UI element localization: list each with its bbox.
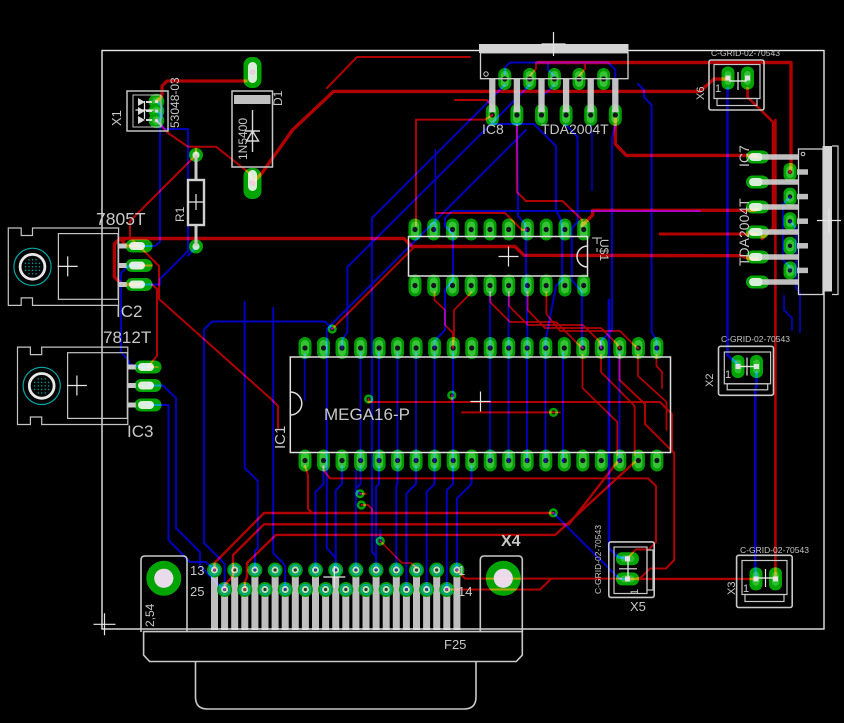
- wire: [579, 63, 585, 77]
- resistor R1 bottom pad: [189, 240, 203, 254]
- wire: [566, 125, 582, 348]
- IC1 origin cross: [471, 392, 491, 412]
- wire: [620, 355, 675, 579]
- IC3 pad 2: [135, 379, 162, 392]
- svg-text:TDA2004T: TDA2004T: [736, 198, 752, 266]
- via B: [357, 500, 366, 509]
- wire: [554, 411, 561, 413]
- F25 body outline: [144, 632, 523, 662]
- wire: [455, 100, 492, 107]
- wire: [434, 150, 436, 232]
- IC8 body outline: [481, 53, 629, 79]
- IC8 lower pad row: [486, 104, 622, 126]
- via A: [355, 489, 364, 498]
- wire: [406, 466, 416, 590]
- wire: [195, 147, 197, 155]
- wire: [528, 292, 620, 348]
- IC2 pad 2: [126, 259, 153, 272]
- svg-text:C-GRID-02-70543: C-GRID-02-70543: [711, 48, 780, 58]
- wire: [336, 466, 342, 570]
- wire: [638, 84, 657, 352]
- via F: [447, 391, 456, 400]
- wire: [492, 124, 562, 348]
- connector X6 pad 1: [722, 67, 735, 90]
- X1 origin cross: [136, 101, 154, 119]
- wire: [376, 466, 379, 570]
- wire: [447, 579, 551, 590]
- connector X3 pad 1: [750, 567, 763, 590]
- svg-text:1: 1: [458, 563, 465, 578]
- svg-text:25: 25: [190, 584, 204, 599]
- wire: [380, 541, 416, 568]
- wire: [215, 513, 554, 570]
- svg-text:MEGA16-P: MEGA16-P: [324, 405, 410, 424]
- wire: [562, 352, 564, 462]
- wire: [245, 462, 635, 590]
- connector X6 outline: [709, 60, 764, 110]
- connector X3 pad 2: [769, 567, 782, 590]
- IC3 pad 3: [135, 399, 162, 412]
- svg-text:X1: X1: [109, 110, 124, 126]
- wire: [447, 466, 453, 590]
- X3 origin cross: [757, 569, 775, 587]
- svg-text:D1: D1: [271, 90, 285, 106]
- wire: [121, 266, 148, 368]
- wire: [273, 308, 285, 590]
- wire: [601, 355, 635, 455]
- wire: [728, 88, 739, 367]
- wire: [416, 115, 492, 226]
- svg-text:14: 14: [458, 584, 472, 599]
- wire: [361, 505, 372, 513]
- wire: [157, 121, 253, 181]
- wire: [508, 292, 510, 348]
- svg-text:F25: F25: [444, 637, 466, 652]
- wire: [436, 213, 526, 230]
- wire: [657, 355, 663, 388]
- connector X2 pad 1: [732, 355, 745, 378]
- IC2 origin cross: [58, 256, 78, 276]
- IC7 tab: [823, 146, 839, 295]
- wire: [360, 352, 362, 462]
- svg-text:C-GRID-02-70543: C-GRID-02-70543: [721, 334, 790, 344]
- wire: [327, 130, 526, 570]
- svg-text:X2: X2: [704, 374, 716, 387]
- wire: [378, 352, 380, 462]
- svg-text:IC2: IC2: [116, 302, 142, 321]
- svg-text:1: 1: [629, 589, 641, 595]
- wire: [582, 209, 757, 226]
- svg-text:U$1: U$1: [597, 239, 611, 261]
- wire: [452, 352, 454, 462]
- wire: [316, 466, 324, 570]
- IC8 pin bars: [492, 79, 615, 112]
- wire: [434, 352, 436, 462]
- wire: [755, 372, 756, 579]
- wire: [342, 85, 530, 348]
- X2 origin cross: [738, 358, 756, 376]
- wire: [457, 466, 472, 570]
- svg-text:X4: X4: [501, 533, 521, 550]
- wire: [462, 411, 554, 413]
- IC8 tab: [479, 44, 629, 53]
- IC7 outer pad column: [746, 151, 769, 289]
- svg-text:1: 1: [743, 583, 749, 595]
- via G: [549, 408, 558, 417]
- IC2 pad 3: [126, 278, 153, 291]
- svg-text:1N5400: 1N5400: [236, 118, 250, 160]
- wire: [141, 121, 188, 285]
- wire: [396, 466, 397, 570]
- wire: [490, 292, 582, 348]
- wire: [489, 292, 491, 348]
- R1 origin cross: [188, 194, 204, 210]
- F25 right ear outline: [480, 556, 522, 632]
- F25 pin row 13..1: [207, 563, 464, 578]
- via H: [364, 394, 373, 403]
- wire: [379, 530, 381, 541]
- F25 pin bars: [215, 575, 457, 630]
- svg-text:C-GRID-02-70543: C-GRID-02-70543: [593, 525, 603, 594]
- svg-text:C-GRID-02-70543: C-GRID-02-70543: [740, 545, 809, 555]
- wire: [356, 466, 361, 570]
- wire: [530, 63, 536, 77]
- wire: [245, 302, 258, 570]
- IC7 origin cross: [817, 209, 841, 233]
- diode D1 bottom pad: [244, 168, 262, 199]
- wire: [397, 352, 399, 462]
- X6 origin cross: [729, 72, 747, 90]
- wire: [454, 292, 472, 341]
- IC2 hole: [14, 248, 51, 285]
- board outline: [102, 51, 824, 630]
- wire: [148, 366, 158, 368]
- wire: [591, 125, 592, 190]
- svg-text:1: 1: [725, 369, 731, 381]
- IC8 origin cross: [542, 32, 566, 56]
- wire: [435, 292, 454, 348]
- svg-text:IC3: IC3: [127, 422, 153, 441]
- IC7 inner pad column: [784, 163, 797, 279]
- wire: [139, 246, 278, 428]
- U$1 top pad row: [409, 219, 591, 241]
- F25 left ear outline: [141, 556, 187, 632]
- via E: [328, 324, 337, 333]
- wire: [188, 247, 196, 255]
- X5 origin cross: [619, 560, 637, 578]
- connector X6 pad 2: [741, 67, 754, 90]
- wire: [122, 239, 139, 247]
- connector X5 pad 1: [616, 572, 639, 585]
- svg-text:1: 1: [715, 83, 721, 95]
- wire: [114, 239, 757, 285]
- wire: [148, 386, 225, 590]
- wire: [372, 85, 505, 570]
- connector X3 outline: [737, 555, 793, 607]
- wire: [457, 570, 621, 579]
- wire: [508, 352, 510, 462]
- svg-text:2,54: 2,54: [143, 603, 157, 627]
- svg-text:IC1: IC1: [272, 426, 289, 449]
- wire: [157, 81, 247, 102]
- wire: [415, 352, 417, 462]
- IC3 outline: [18, 347, 136, 424]
- wire: [148, 285, 157, 368]
- wire: [225, 462, 618, 590]
- IC2 outline: [8, 228, 126, 305]
- wire: [369, 399, 672, 450]
- U$1 origin cross: [499, 247, 519, 267]
- wire: [609, 300, 628, 559]
- wire: [601, 125, 615, 348]
- IC8 upper pad row: [498, 68, 610, 90]
- wire: [305, 466, 312, 513]
- wire: [356, 470, 360, 494]
- wire: [628, 578, 757, 580]
- IC7 pin bars: [762, 157, 808, 282]
- U$1 outline: [409, 237, 603, 277]
- wire: [451, 395, 453, 402]
- svg-text:IC8: IC8: [482, 121, 504, 137]
- IC7 body outline: [799, 149, 824, 295]
- IC3 origin cross: [67, 376, 87, 396]
- svg-text:7812T: 7812T: [103, 328, 151, 347]
- wire: [253, 79, 729, 183]
- wire: [615, 119, 757, 157]
- svg-text:13: 13: [190, 563, 204, 578]
- wire: [489, 352, 491, 462]
- wire: [553, 513, 627, 579]
- wire: [304, 354, 306, 400]
- F25 origin cross: [323, 566, 345, 588]
- via D: [549, 508, 558, 517]
- wire: [435, 211, 701, 348]
- wire: [204, 322, 332, 590]
- IC3 pad 1: [135, 361, 162, 374]
- IC3 hole: [23, 367, 60, 404]
- wire: [526, 352, 528, 462]
- wire: [583, 355, 618, 455]
- wire: [357, 56, 470, 58]
- wire: [157, 102, 163, 119]
- wire: [543, 85, 554, 104]
- svg-text:X6: X6: [695, 87, 707, 100]
- connector X2 outline: [719, 346, 774, 395]
- wire: [783, 197, 790, 270]
- U$1 bottom pad row: [409, 275, 591, 297]
- diode D1 top pad: [244, 57, 262, 88]
- wire: [517, 125, 528, 348]
- wire: [619, 352, 621, 462]
- board origin cross: [94, 613, 116, 635]
- F25 shell outline: [196, 662, 477, 710]
- connector X1 pads: [149, 94, 165, 129]
- F25 left mounting ring: [146, 561, 181, 596]
- svg-text:53048-03: 53048-03: [168, 77, 182, 128]
- wire: [148, 405, 215, 570]
- svg-text:IC7: IC7: [736, 145, 752, 167]
- wire: [360, 493, 366, 495]
- wire: [517, 125, 582, 226]
- wire: [427, 466, 435, 590]
- wire: [538, 63, 791, 173]
- svg-text:R1: R1: [173, 206, 187, 222]
- connector X5 pad 2: [616, 552, 639, 565]
- wire: [546, 292, 638, 348]
- svg-text:X3: X3: [726, 582, 738, 595]
- IC1 outline: [290, 357, 670, 453]
- wire: [790, 221, 800, 332]
- connector X5 outline: [609, 542, 654, 598]
- wire: [548, 64, 554, 76]
- wire: [130, 155, 196, 246]
- wire: [638, 355, 667, 430]
- wire: [505, 63, 615, 107]
- svg-text:7805T: 7805T: [96, 209, 146, 229]
- F25 right mounting ring: [486, 561, 521, 596]
- IC2 pad 1: [126, 240, 153, 253]
- wire: [545, 352, 547, 462]
- via C: [376, 536, 385, 545]
- resistor R1 top pad: [189, 148, 203, 162]
- IC1 bottom pad row: [299, 450, 664, 472]
- wire: [660, 233, 756, 236]
- wire: [784, 296, 792, 330]
- svg-text:TDA2004T: TDA2004T: [541, 121, 609, 137]
- wire: [139, 265, 152, 267]
- wire: [141, 111, 160, 246]
- wire: [509, 292, 601, 348]
- connector X1 outline: [127, 91, 168, 131]
- wire: [327, 57, 357, 88]
- svg-text:X5: X5: [630, 599, 646, 614]
- wire: [774, 120, 777, 579]
- wire: [332, 246, 415, 329]
- wire: [324, 466, 657, 559]
- resistor R1 outline: [188, 155, 204, 246]
- F25 pin row 25..14: [217, 582, 454, 597]
- IC1 top pad row: [299, 337, 664, 359]
- wire: [748, 88, 774, 239]
- diode D1 outline: [232, 91, 273, 167]
- connector X2 pad 2: [750, 355, 763, 378]
